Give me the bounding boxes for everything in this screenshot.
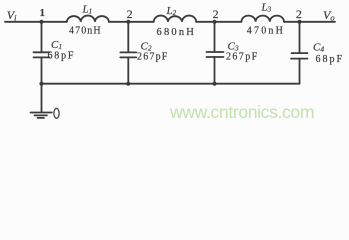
bottom junction dot left bbox=[39, 82, 43, 86]
svg-text:680nH: 680nH bbox=[157, 27, 197, 38]
wire top rail segment 1 bbox=[5, 21, 67, 23]
wire top rail segment 3 bbox=[196, 21, 241, 23]
wire bottom rail bbox=[42, 83, 300, 85]
svg-text:2: 2 bbox=[296, 7, 302, 21]
svg-text:470nH: 470nH bbox=[69, 26, 102, 37]
inductor L3 bbox=[241, 16, 284, 22]
svg-text:470nH: 470nH bbox=[247, 26, 285, 37]
capacitor C1 bbox=[34, 52, 50, 57]
svg-text:267pF: 267pF bbox=[137, 52, 169, 63]
wire branch 1 upper bbox=[41, 22, 43, 53]
wire branch 3 upper bbox=[214, 22, 216, 52]
svg-text:www.cntronics.com: www.cntronics.com bbox=[169, 102, 314, 122]
svg-text:2: 2 bbox=[127, 7, 133, 21]
svg-text:68pF: 68pF bbox=[316, 54, 345, 65]
wire branch 3 lower bbox=[214, 57, 216, 84]
node 4 junction dot bbox=[297, 20, 301, 24]
capacitor C2 bbox=[120, 52, 136, 57]
wire branch 4 lower bbox=[299, 59, 301, 84]
inductor L2 bbox=[154, 16, 197, 22]
node 2 junction dot bbox=[126, 20, 130, 24]
wire top rail segment 4 bbox=[284, 21, 335, 23]
svg-text:267pF: 267pF bbox=[226, 52, 259, 63]
capacitor C4 bbox=[291, 53, 308, 59]
bottom junction dot right bbox=[212, 82, 216, 86]
wire top rail segment 2 bbox=[109, 21, 154, 23]
wire branch 1 lower bbox=[41, 57, 43, 83]
svg-text:2: 2 bbox=[213, 7, 219, 21]
wire branch 2 upper bbox=[127, 22, 129, 53]
wire branch 2 lower bbox=[127, 57, 129, 83]
node 3 junction dot bbox=[212, 20, 216, 24]
bottom junction dot middle bbox=[126, 82, 130, 86]
svg-text:68pF: 68pF bbox=[48, 51, 76, 62]
svg-text:1: 1 bbox=[40, 8, 45, 19]
capacitor C3 bbox=[207, 52, 224, 57]
inductor L1 bbox=[67, 16, 109, 22]
node 1 junction dot bbox=[39, 20, 43, 24]
wire branch 4 upper bbox=[299, 22, 301, 53]
ground bbox=[31, 84, 52, 118]
ground 0 label bbox=[54, 108, 59, 118]
